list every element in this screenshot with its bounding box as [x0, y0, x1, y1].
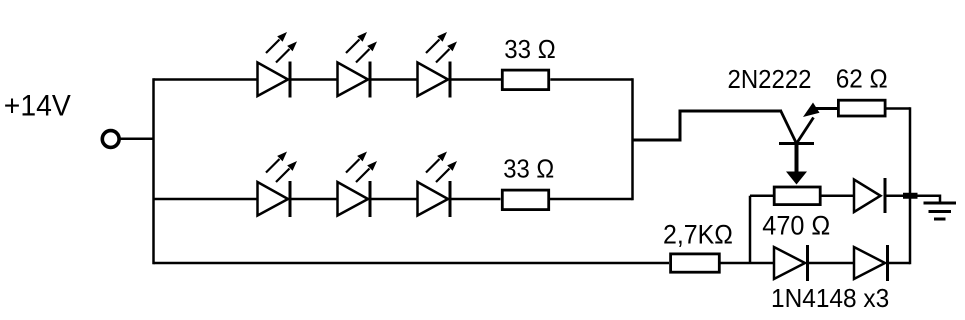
svg-text:2,7KΩ: 2,7KΩ [663, 220, 733, 250]
svg-text:2N2222: 2N2222 [728, 64, 812, 94]
svg-text:33 Ω: 33 Ω [504, 34, 555, 64]
svg-text:+14V: +14V [4, 90, 71, 123]
svg-text:33 Ω: 33 Ω [503, 154, 554, 184]
svg-text:470 Ω: 470 Ω [762, 211, 830, 241]
svg-text:1N4148 x3: 1N4148 x3 [771, 283, 889, 313]
svg-text:62 Ω: 62 Ω [836, 64, 888, 94]
